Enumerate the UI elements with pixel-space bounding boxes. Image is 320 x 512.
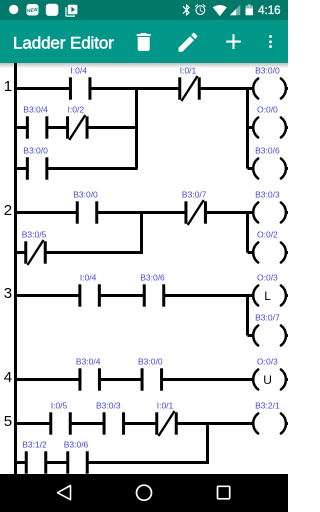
- svg-text:O:0/2: O:0/2: [257, 230, 278, 240]
- svg-text:B3:0/3: B3:0/3: [96, 401, 121, 411]
- svg-text:B3:0/4: B3:0/4: [76, 357, 101, 367]
- svg-text:I:0/1: I:0/1: [157, 401, 174, 411]
- svg-text:B3:0/0: B3:0/0: [73, 190, 98, 200]
- svg-text:Ladder Editor: Ladder Editor: [13, 33, 114, 52]
- svg-text:O:0/3: O:0/3: [257, 273, 278, 283]
- svg-text:O:0/0: O:0/0: [257, 105, 278, 115]
- svg-text:B3:0/0: B3:0/0: [255, 66, 280, 76]
- svg-text:I:0/4: I:0/4: [70, 66, 87, 76]
- svg-text:B3:2/1: B3:2/1: [255, 401, 280, 411]
- svg-text:4: 4: [4, 369, 12, 386]
- svg-text:I:0/2: I:0/2: [68, 105, 85, 115]
- svg-text:U: U: [263, 373, 272, 387]
- svg-text:B3:1/2: B3:1/2: [22, 440, 47, 450]
- svg-text:4:16: 4:16: [258, 5, 280, 17]
- svg-text:5: 5: [4, 413, 12, 430]
- svg-text:B3:0/3: B3:0/3: [255, 190, 280, 200]
- svg-text:B3:0/6: B3:0/6: [255, 146, 280, 156]
- svg-text:B3:0/0: B3:0/0: [23, 146, 48, 156]
- svg-text:B3:0/0: B3:0/0: [138, 357, 163, 367]
- svg-text:3: 3: [4, 285, 12, 302]
- svg-text:2: 2: [4, 202, 12, 219]
- svg-text:I:0/1: I:0/1: [180, 66, 197, 76]
- svg-text:I:0/5: I:0/5: [51, 401, 68, 411]
- svg-text:B3:0/7: B3:0/7: [255, 313, 280, 323]
- svg-text:I:0/4: I:0/4: [80, 273, 97, 283]
- svg-text:B3:0/5: B3:0/5: [22, 230, 47, 240]
- svg-text:1: 1: [4, 78, 12, 95]
- svg-text:B3:0/6: B3:0/6: [64, 440, 89, 450]
- svg-text:B3:0/7: B3:0/7: [182, 190, 207, 200]
- svg-text:O:0/3: O:0/3: [257, 357, 278, 367]
- svg-text:B3:0/6: B3:0/6: [140, 273, 165, 283]
- svg-text:L: L: [264, 289, 271, 303]
- svg-text:B3:0/4: B3:0/4: [23, 105, 48, 115]
